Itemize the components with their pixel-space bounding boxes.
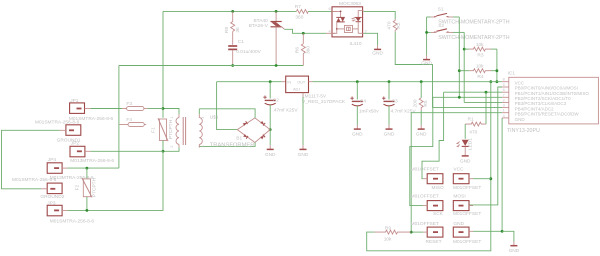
- svg-text:3: 3: [503, 104, 505, 108]
- svg-text:R1: R1: [468, 117, 474, 123]
- wire PB1 over to MISO header: [422, 92, 444, 179]
- wire triac gate to R6 node and MOC pin4: [285, 29, 327, 33]
- fuse F3: [122, 101, 147, 110]
- svg-text:1mFx50v: 1mFx50v: [359, 109, 379, 115]
- svg-text:GND: GND: [421, 61, 432, 67]
- svg-text:MOSI: MOSI: [453, 194, 465, 200]
- wire PB3 pin2 row to S2: [464, 101, 502, 103]
- resistor R3: [464, 42, 497, 58]
- wire switches common to GND: [426, 17, 428, 55]
- wire PB2 over to SCK header: [410, 97, 433, 205]
- svg-text:GROUND2: GROUND2: [40, 194, 64, 200]
- svg-text:JP2: JP2: [71, 140, 80, 146]
- node F2 top junction: [86, 167, 89, 170]
- svg-text:10k: 10k: [476, 64, 484, 70]
- header JP7 SCK M01OFFSET: [411, 194, 444, 217]
- svg-text:IN: IN: [287, 81, 291, 85]
- resistor R9: [375, 225, 412, 242]
- resistor R8: [224, 11, 241, 44]
- wire PB2 pin7 row: [433, 96, 502, 98]
- internal triac: [332, 11, 341, 17]
- node C1 bottom junction: [231, 64, 234, 67]
- header JP9 RESET M01OFFSET: [411, 221, 443, 245]
- svg-text:C4: C4: [360, 98, 366, 104]
- svg-text:R6: R6: [295, 47, 301, 53]
- svg-text:RESET: RESET: [426, 239, 442, 245]
- svg-text:GND: GND: [416, 132, 427, 138]
- pin 4 stub: [326, 32, 335, 34]
- svg-text:360: 360: [306, 46, 312, 54]
- svg-text:M013MTRA-256-8-6: M013MTRA-256-8-6: [70, 158, 114, 164]
- wire bottom return of snubber/triac: [119, 65, 303, 67]
- svg-text:VCC: VCC: [453, 166, 464, 172]
- node C2 top junction: [269, 80, 272, 83]
- resistor R4: [459, 64, 497, 80]
- wire S1 right drop to pin7 row: [458, 17, 460, 97]
- wire secondary top to bridge top: [199, 109, 255, 118]
- node rail junction at 496.9: [496, 80, 499, 83]
- node R4 right junction: [496, 69, 499, 72]
- svg-text:2: 2: [170, 145, 174, 147]
- svg-text:V_REG_317DPACK: V_REG_317DPACK: [302, 99, 346, 105]
- wire VCC rail down to VCC header and bottom loop: [367, 82, 491, 251]
- svg-text:R5: R5: [423, 100, 429, 106]
- node triac bottom junction: [275, 64, 278, 67]
- wire GND pin4 to header GND: [501, 118, 503, 231]
- svg-text:R7: R7: [295, 4, 301, 10]
- header JP6 VCC M01OFFSET: [453, 166, 491, 190]
- svg-text:GND: GND: [453, 221, 464, 227]
- svg-text:IL410: IL410: [350, 41, 362, 47]
- header JP10 GND M01OFFSET: [453, 221, 502, 245]
- connector JP2: [70, 140, 114, 164]
- thermistor F2 PTCPTH: [75, 168, 98, 210]
- pin 4 stub: [502, 117, 509, 119]
- ground under regulator ADJ: [298, 145, 309, 158]
- header JP8 MOSI M01OFFSET: [453, 194, 481, 217]
- svg-text:C1: C1: [238, 39, 244, 45]
- thermistor F1 PTCPTH: [151, 106, 174, 153]
- pin 8 stub: [502, 81, 509, 83]
- svg-text:4: 4: [503, 114, 505, 118]
- svg-text:GND: GND: [384, 132, 395, 138]
- wire PB0 pin5 to MOSI header: [469, 87, 502, 205]
- svg-text:10k: 10k: [384, 237, 392, 243]
- svg-text:M01OFFSET: M01OFFSET: [453, 211, 481, 217]
- svg-text:B1: B1: [236, 136, 242, 142]
- connector JP3: [47, 201, 94, 225]
- node S2 left junction: [425, 31, 428, 34]
- svg-text:M01SMTRA-256-8-6: M01SMTRA-256-8-6: [50, 218, 95, 224]
- wire secondary bottom to bridge bottom: [199, 143, 255, 147]
- svg-text:MOC3063: MOC3063: [339, 1, 361, 7]
- svg-text:8: 8: [503, 78, 505, 82]
- svg-text:0.01u/400V: 0.01u/400V: [236, 49, 261, 55]
- ground under switches: [421, 55, 432, 66]
- pin 6 stub: [332, 10, 337, 12]
- wire left drop from top wire to F1 node: [162, 11, 164, 105]
- resistor R2: [387, 19, 402, 32]
- pin 1 stub: [502, 112, 509, 114]
- svg-text:F1: F1: [151, 127, 157, 133]
- capacitor C4: [350, 80, 379, 137]
- rectifier B1 bridge: [236, 118, 270, 143]
- svg-text:R2: R2: [396, 22, 402, 28]
- LED LED1: [457, 124, 474, 164]
- ground under MOC: [372, 45, 383, 56]
- wire left drop to JP4 row: [118, 66, 120, 169]
- wire PB1 pin6 row: [444, 91, 503, 93]
- ground under bridge: [265, 145, 276, 158]
- capacitor C3: [382, 80, 416, 137]
- wire GND node to ground symbol: [502, 231, 514, 241]
- connector JP4: [47, 157, 94, 181]
- fuse F4 spare: [119, 117, 146, 126]
- header JP5 MISO M01OFFSET: [411, 166, 444, 190]
- node S2/R3 node: [463, 48, 466, 51]
- svg-text:LM1117-5V: LM1117-5V: [302, 94, 327, 100]
- svg-text:C3: C3: [392, 98, 398, 104]
- svg-text:F2: F2: [75, 184, 81, 190]
- svg-text:IC1: IC1: [508, 71, 516, 77]
- wire raw DC drop to bridge left: [217, 82, 238, 130]
- connector JP1: [69, 98, 114, 122]
- node R8 top junction: [231, 10, 234, 13]
- svg-text:360: 360: [295, 14, 303, 20]
- svg-text:1: 1: [503, 109, 505, 113]
- pin 7 stub: [502, 96, 509, 98]
- svg-text:C2: C2: [273, 97, 279, 103]
- switch S2: [427, 23, 510, 41]
- internal led: [357, 10, 359, 17]
- svg-text:R4: R4: [477, 74, 483, 80]
- svg-text:MISO: MISO: [432, 185, 445, 191]
- svg-text:4: 4: [201, 116, 205, 118]
- svg-text:GND: GND: [352, 132, 363, 138]
- svg-text:LED1: LED1: [468, 138, 474, 150]
- node RESET/R9 junction: [410, 231, 413, 234]
- svg-text:470: 470: [387, 21, 393, 29]
- svg-text:2: 2: [503, 98, 505, 102]
- svg-text:3: 3: [201, 145, 205, 147]
- svg-text:TRANSFORMER: TRANSFORMER: [210, 143, 255, 149]
- resistor R5: [413, 80, 430, 137]
- svg-text:SCK: SCK: [433, 211, 444, 217]
- svg-text:10k: 10k: [476, 42, 484, 48]
- svg-text:GND: GND: [515, 117, 526, 122]
- svg-text:S1: S1: [438, 7, 444, 13]
- svg-text:5: 5: [503, 83, 505, 87]
- node F2 bottom junction: [86, 209, 89, 212]
- wire S2 right drop to pin2 row: [463, 32, 465, 102]
- svg-text:BTA26-V: BTA26-V: [249, 23, 269, 29]
- svg-text:GND: GND: [372, 50, 383, 56]
- resistor R7: [295, 4, 309, 20]
- node PB1/R1 junction: [485, 91, 488, 94]
- node gate/R6 junction: [302, 32, 305, 35]
- connector GROUND1: [35, 119, 81, 143]
- svg-text:R9: R9: [385, 225, 391, 231]
- svg-text:GND: GND: [460, 158, 471, 164]
- wire top mains L net: [163, 10, 296, 12]
- node VCC header junction: [489, 177, 492, 180]
- svg-text:M01OFFSET: M01OFFSET: [411, 166, 439, 172]
- svg-text:6: 6: [503, 88, 505, 92]
- svg-text:U$1: U$1: [210, 114, 219, 120]
- pin 6 stub: [502, 91, 509, 93]
- svg-text:36: 36: [235, 27, 241, 33]
- node PB2/S1 junction: [458, 96, 461, 99]
- wire JP2 to F1 bottom node: [91, 150, 163, 152]
- svg-text:6: 6: [329, 7, 331, 11]
- ground bottom right: [509, 242, 520, 255]
- wire GROUND1 to left rail: [2, 130, 60, 189]
- svg-text:SWITCH-MOMENTARY-2PTH: SWITCH-MOMENTARY-2PTH: [438, 35, 510, 41]
- svg-text:M01SMTRA-256-8-6: M01SMTRA-256-8-6: [12, 177, 57, 183]
- svg-text:1: 1: [170, 116, 174, 118]
- node S1/R4 node: [458, 69, 461, 72]
- svg-text:ADJ: ADJ: [293, 88, 300, 92]
- svg-text:470: 470: [469, 129, 477, 135]
- wire R7 to MOC pin6: [308, 10, 332, 12]
- svg-text:PTCPTH: PTCPTH: [92, 177, 98, 197]
- wire R2 bottom over to PB4 drop: [395, 32, 432, 108]
- wire R1 drop from PB1: [485, 92, 487, 124]
- pin 2 stub: [502, 101, 509, 103]
- switch S1: [427, 7, 510, 26]
- wire PB5 pin1 row to RESET header: [411, 113, 502, 232]
- svg-text:M01OFFSET: M01OFFSET: [411, 221, 439, 227]
- wire regulator ADJ to GND: [302, 97, 304, 145]
- internal zero-cross box: [344, 25, 352, 32]
- capacitor C2: [263, 82, 298, 130]
- wire JP4 row to x=118.9 drop: [67, 167, 119, 169]
- svg-text:47mf X25V: 47mf X25V: [274, 108, 299, 114]
- pin 3 stub: [502, 107, 509, 109]
- op-amp U? optocoupler MOC3063: [326, 1, 366, 47]
- wire raw DC rail into regulator: [217, 81, 282, 83]
- node bridge right junction: [269, 128, 272, 131]
- svg-text:PTCPTH: PTCPTH: [168, 119, 174, 139]
- svg-text:JP4: JP4: [48, 157, 57, 163]
- svg-text:4.7mf X25V: 4.7mf X25V: [391, 109, 417, 115]
- wire JP3 row up to F1 bottom node: [67, 151, 163, 210]
- svg-text:GND: GND: [265, 152, 276, 158]
- svg-text:GND: GND: [298, 152, 309, 158]
- svg-text:R8: R8: [224, 27, 230, 33]
- svg-text:S2: S2: [438, 23, 444, 29]
- svg-text:OUT: OUT: [297, 81, 306, 85]
- transformer U$1: [163, 109, 254, 152]
- svg-text:GND: GND: [509, 248, 520, 254]
- regulator U2 LM1117-5V: [282, 76, 346, 105]
- connector GROUND2: [12, 177, 65, 200]
- svg-text:M01OFFSET: M01OFFSET: [411, 194, 439, 200]
- wire MOC pin2 to GND: [364, 33, 378, 45]
- resistor R6: [295, 33, 312, 65]
- wire 5V rail from regulator OUT to IC1 VCC: [313, 81, 503, 83]
- node GND header junction: [501, 230, 504, 233]
- node rail junction at 490.8: [489, 80, 492, 83]
- IC U1 IC1 TINY13-20PU: [502, 71, 598, 134]
- wire F3 to F1 node: [147, 108, 163, 110]
- wire MOC pin1 to R2: [364, 11, 396, 19]
- svg-text:7: 7: [503, 93, 505, 97]
- capacitor C1: [228, 39, 261, 66]
- wire R3/R4 right to VCC rail: [496, 49, 498, 82]
- pin 5 stub: [502, 86, 509, 88]
- wire bridge right to GND: [269, 130, 271, 146]
- wire JP1 to F3: [91, 108, 122, 110]
- svg-text:200: 200: [413, 99, 419, 107]
- svg-text:M01OFFSET: M01OFFSET: [453, 185, 481, 191]
- svg-text:TINY13-20PU: TINY13-20PU: [507, 128, 540, 134]
- svg-text:SWITCH-MOMENTARY-2PTH: SWITCH-MOMENTARY-2PTH: [438, 20, 510, 26]
- wire PB4 pin3 row to R2: [433, 107, 503, 109]
- svg-text:R3: R3: [477, 52, 483, 58]
- triac T1 BTA40: [249, 10, 285, 66]
- resistor R1: [465, 117, 486, 136]
- svg-text:M01OFFSET: M01OFFSET: [453, 239, 481, 245]
